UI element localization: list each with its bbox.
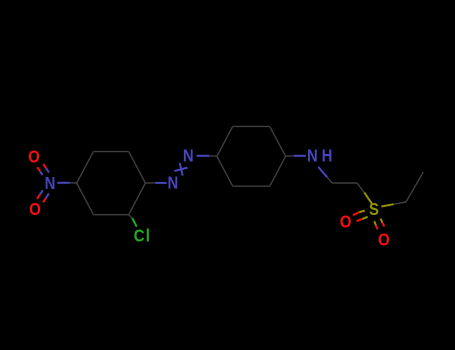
- bond chain C2 to S, carbon half: [357, 183, 364, 193]
- svg-text:O: O: [378, 231, 390, 250]
- bond ethyl CH2-CH3: [406, 172, 423, 202]
- sulfonyl S=O left double bond, lower line red half: [357, 219, 363, 221]
- svg-text:O: O: [29, 200, 41, 219]
- nitro O2=N double bond (bottom), right line blue half: [46, 193, 49, 198]
- bond ring1 C1 to azo N1, carbon half: [145, 182, 155, 184]
- azo N1=N2 crossed double bond, shallow line: [175, 168, 188, 171]
- svg-text:O: O: [28, 148, 40, 167]
- ring1 edge C5-C6: [93, 151, 128, 153]
- bond NH to chain C1, carbon half: [327, 177, 332, 183]
- bond S to ethyl CH2, sulfur half: [381, 204, 393, 206]
- svg-text:N: N: [168, 174, 179, 193]
- sulfonyl S=O bottom double bond, left line red half: [376, 225, 378, 229]
- bond ring1 C2 to Cl, carbon half: [129, 215, 133, 219]
- bond S to ethyl CH2, carbon half: [394, 202, 406, 204]
- bond ring2 C4' to NH, blue half: [294, 155, 306, 157]
- bond ring1 C2 to Cl, green half: [132, 218, 136, 227]
- ring2 edge C6'-C1': [217, 156, 233, 186]
- ring2 edge C2'-C3': [233, 125, 270, 127]
- sulfonyl S=O left double bond, upper line red half: [353, 212, 359, 215]
- bond azo N2 to ring2 C1', blue half: [197, 155, 210, 157]
- svg-text:Cl: Cl: [134, 227, 151, 246]
- sulfonyl S=O bottom double bond, right line sulfur half: [381, 219, 383, 223]
- bond chain C2 to S, sulfur half: [364, 193, 372, 205]
- bond nitro N to ring1 C4, blue half: [57, 182, 70, 184]
- svg-text:O: O: [340, 213, 352, 232]
- svg-text:N: N: [183, 146, 194, 165]
- azo N1=N2 crossed double bond, steep line: [180, 163, 183, 176]
- ring2 edge C3'-C4': [270, 126, 286, 156]
- nitro O1=N double bond (top), right line red half: [43, 164, 46, 168]
- bond azo N2 to ring2 C1', carbon half: [209, 155, 217, 158]
- sulfonyl S=O left double bond, lower line sulfur half: [362, 217, 367, 219]
- ring2 edge C1'-C2': [217, 126, 233, 156]
- ring1 edge C3-C4: [77, 183, 94, 215]
- nitro O1=N double bond (top), right line blue half: [46, 168, 49, 172]
- nitro O2=N double bond (bottom), left line red half: [37, 195, 40, 199]
- bond ring2 C4' to NH, carbon half: [286, 155, 294, 158]
- ring1 edge C2-C3: [93, 214, 128, 216]
- bond NH to chain C1, blue half: [318, 167, 327, 177]
- svg-text:N: N: [45, 174, 56, 193]
- bond chain C1-C2: [332, 182, 357, 184]
- sulfonyl S=O bottom double bond, left line sulfur half: [374, 221, 376, 225]
- svg-text:S: S: [369, 200, 379, 219]
- sulfonyl S=O bottom double bond, right line red half: [382, 223, 384, 227]
- ring1 edge C4-C5: [77, 152, 94, 183]
- nitro O2=N double bond (bottom), right line red half: [43, 198, 46, 202]
- ring2 edge C4'-C5': [270, 156, 286, 186]
- nitro O1=N double bond (top), left line blue half: [40, 171, 43, 175]
- nitro O2=N double bond (bottom), left line blue half: [40, 190, 43, 194]
- bond ring1 C1 to azo N1, blue half: [155, 182, 166, 184]
- nitro O1=N double bond (top), left line red half: [37, 167, 40, 171]
- sulfonyl S=O left double bond, upper line sulfur half: [359, 211, 365, 213]
- ring2 edge C5'-C6': [233, 185, 270, 187]
- bond nitro N to ring1 C4, carbon half: [70, 182, 77, 184]
- ring1 edge C6-C1: [129, 152, 146, 183]
- svg-text:NH: NH: [307, 146, 336, 165]
- ring1 edge C1-C2: [129, 183, 146, 215]
